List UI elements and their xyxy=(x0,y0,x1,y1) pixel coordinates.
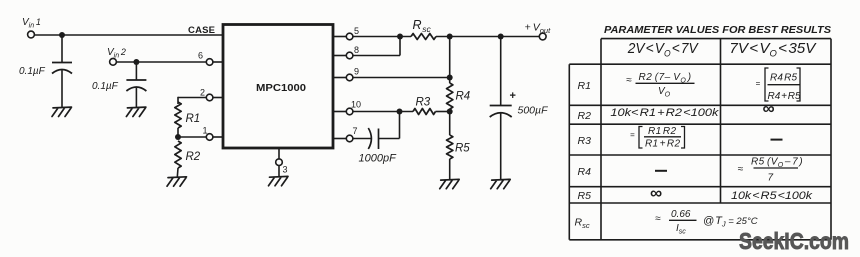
pin 3 lead xyxy=(278,148,280,159)
wire Rsc to Vout xyxy=(436,36,539,38)
wire C1 top lead xyxy=(61,35,63,62)
table header col1 2V&lt;Vo&lt;7V xyxy=(627,41,699,59)
wire R2 to ground xyxy=(176,168,179,177)
value R2 col2 infinity xyxy=(763,99,775,118)
svg-text:R5 (VO – 7 ): R5 (VO – 7 ) xyxy=(751,157,803,170)
svg-text:+: + xyxy=(510,90,516,102)
input terminal Vin1 xyxy=(28,31,35,38)
op-amp U1 MPC1000 package xyxy=(223,25,333,149)
svg-text:∞: ∞ xyxy=(650,184,662,203)
wire IC to pin10 xyxy=(333,111,346,113)
wire pin6 to IC xyxy=(213,61,223,63)
svg-text:3: 3 xyxy=(283,165,288,175)
wire Vin1 to IC CASE xyxy=(34,34,223,36)
svg-text:1: 1 xyxy=(203,126,208,136)
wire pin1 to IC xyxy=(213,136,223,138)
row label R1 xyxy=(578,80,591,92)
label CASE xyxy=(188,25,215,36)
wire pin10 to R3 xyxy=(353,111,413,113)
svg-text:=: = xyxy=(630,131,635,140)
svg-text:=: = xyxy=(756,79,761,88)
pin 3 terminal xyxy=(276,159,283,166)
svg-text:10: 10 xyxy=(351,100,361,110)
ground under C2 xyxy=(126,107,145,116)
label C4 plus xyxy=(510,90,516,102)
node junction pin5/pin8 xyxy=(397,34,403,40)
wire pin7 to C3 xyxy=(353,138,371,140)
pin 9 label xyxy=(354,67,359,77)
svg-text:0.1µF: 0.1µF xyxy=(92,81,119,92)
svg-text:≈: ≈ xyxy=(655,214,661,225)
label C1 0.1uF xyxy=(19,66,46,77)
pin 8 terminal xyxy=(346,52,353,59)
svg-text:R3: R3 xyxy=(578,135,592,147)
capacitor C2 0.1uF xyxy=(126,80,146,91)
wire riser Rsc-R4node xyxy=(449,37,451,78)
capacitor C4 500uF xyxy=(490,106,512,118)
table title PARAMETER VALUES FOR BEST RESULTS xyxy=(604,24,831,36)
label Vin1 xyxy=(22,17,41,30)
table header col2 7V&lt;Vo&lt;35V xyxy=(729,41,816,59)
capacitor C1 0.1uF xyxy=(52,63,72,74)
resistor Rsc xyxy=(411,34,436,40)
svg-text:PARAMETER VALUES FOR BEST RESU: PARAMETER VALUES FOR BEST RESULTS xyxy=(604,24,831,36)
svg-text:R3: R3 xyxy=(416,97,431,109)
label MPC1000 xyxy=(256,83,306,94)
label 1000pF xyxy=(359,153,398,165)
svg-text:10k< R1 + R2 <100k: 10k< R1 + R2 <100k xyxy=(610,107,719,119)
value R4 col2 formula xyxy=(738,157,804,184)
wire 500uF top lead xyxy=(500,37,502,106)
pin 7 label xyxy=(353,126,358,136)
watermark SeekIC.com xyxy=(739,228,849,254)
wire C2 top lead xyxy=(135,62,137,80)
output terminal +Vout xyxy=(539,33,546,40)
svg-text:8: 8 xyxy=(354,45,359,55)
node junction R1/R2/pin1 xyxy=(175,134,181,140)
wire C1 bottom lead xyxy=(61,70,63,107)
label Vin2 xyxy=(107,47,126,60)
pin 10 terminal xyxy=(346,108,353,115)
value R1 col2 formula xyxy=(756,68,801,102)
svg-text:R2: R2 xyxy=(578,110,592,122)
wire pin5 to Rsc xyxy=(353,36,411,38)
wire Vin2 to pin 6 xyxy=(116,61,206,63)
wire 500uF bottom lead xyxy=(500,113,502,179)
value R3 col2 dash xyxy=(771,139,783,141)
wire C3 to pin10 node xyxy=(379,112,400,139)
wire R1 to node xyxy=(177,128,179,137)
pin 5 label xyxy=(354,26,359,36)
label +Vout xyxy=(525,22,552,36)
label R1 xyxy=(186,113,201,125)
svg-text:2: 2 xyxy=(200,88,205,98)
label C2 0.1uF xyxy=(92,81,119,92)
svg-text:500µF: 500µF xyxy=(518,105,549,117)
wire pin8 to riser xyxy=(353,37,400,56)
wire pin3 to ground xyxy=(278,166,280,177)
row label R2 xyxy=(578,110,592,122)
node junction pin9/R4 xyxy=(447,75,453,81)
node junction Rsc/R4 riser xyxy=(447,34,453,40)
row label R4 xyxy=(578,166,592,178)
svg-text:R1 R2: R1 R2 xyxy=(648,126,676,137)
value R4 col1 dash xyxy=(655,170,667,172)
svg-text:R1 + R2: R1 + R2 xyxy=(645,138,680,149)
svg-text:R1: R1 xyxy=(186,113,201,125)
ground under R5 xyxy=(440,179,460,188)
resistor R5 xyxy=(447,135,453,159)
node junction Vin1/C1 xyxy=(59,32,65,38)
node junction pin10/1000pF xyxy=(397,109,403,115)
wire R4 bottom lead xyxy=(449,109,451,112)
pin 3 label xyxy=(283,165,288,175)
pin 10 label xyxy=(351,100,361,110)
node junction 500uF xyxy=(498,34,504,40)
value R3 col1 formula xyxy=(630,126,685,149)
pin 1 label xyxy=(203,126,208,136)
pin 5 terminal xyxy=(346,33,353,40)
label R5 xyxy=(455,143,470,155)
wire R5 to ground xyxy=(449,159,451,180)
label R3 xyxy=(416,97,431,109)
label Rsc xyxy=(413,18,432,34)
svg-text:SeekIC.com: SeekIC.com xyxy=(739,228,849,254)
svg-text:R4: R4 xyxy=(456,91,471,103)
svg-text:R2: R2 xyxy=(186,151,201,163)
wire node to pin 1 xyxy=(178,136,206,138)
pin 2 label xyxy=(200,88,205,98)
pin 9 terminal xyxy=(346,74,353,81)
ground under 500uF xyxy=(491,179,511,188)
svg-text:7: 7 xyxy=(768,173,774,184)
label R4 xyxy=(456,91,471,103)
svg-text:R1: R1 xyxy=(578,80,591,92)
svg-text:R5: R5 xyxy=(578,190,592,202)
pin 2 terminal xyxy=(206,94,213,101)
svg-text:0.66: 0.66 xyxy=(671,209,691,220)
row label R3 xyxy=(578,135,592,147)
wire IC to pin7 xyxy=(333,138,346,140)
row label Rsc xyxy=(575,217,590,231)
svg-text:R5: R5 xyxy=(455,143,470,155)
svg-text:CASE: CASE xyxy=(188,25,215,36)
svg-text:≈: ≈ xyxy=(626,75,632,86)
resistor R4 xyxy=(447,83,453,109)
node junction R3/R4/R5 xyxy=(447,109,453,115)
node junction Vin2/C2 xyxy=(133,59,139,65)
svg-text:10k < R5 <100k: 10k < R5 <100k xyxy=(731,190,813,202)
wire R4 top lead xyxy=(449,78,451,84)
wire C2 bottom lead xyxy=(135,88,137,108)
svg-text:0.1µF: 0.1µF xyxy=(19,66,46,77)
svg-text:MPC1000: MPC1000 xyxy=(256,83,306,94)
value R5 col1 infinity xyxy=(650,184,662,203)
pin 7 terminal xyxy=(346,135,353,142)
wire IC to pin5 xyxy=(333,36,346,38)
wire pin2 left to R1 xyxy=(178,97,206,104)
svg-text:5: 5 xyxy=(354,26,359,36)
svg-text:R4: R4 xyxy=(578,166,592,178)
resistor R2 xyxy=(175,141,181,168)
pin 8 label xyxy=(354,45,359,55)
svg-text:2V < VO < 7V: 2V < VO < 7V xyxy=(627,41,699,59)
ground under C1 xyxy=(52,107,72,116)
svg-text:≈: ≈ xyxy=(738,164,744,175)
input terminal Vin2 xyxy=(110,58,117,65)
ground under R2 xyxy=(167,177,187,186)
wire R5 top lead xyxy=(449,112,451,136)
resistor R1 xyxy=(175,102,181,128)
value Rsc formula xyxy=(655,209,758,236)
label R2 xyxy=(186,151,201,163)
svg-text:@ TJ = 25°C: @ TJ = 25°C xyxy=(703,215,758,229)
svg-text:R4 R5: R4 R5 xyxy=(770,73,797,84)
ground under pin 3 xyxy=(269,176,289,185)
wire R3 to node xyxy=(436,111,450,113)
svg-text:9: 9 xyxy=(354,67,359,77)
value R5 col2 10k&lt;R5&lt;100k xyxy=(731,190,813,202)
svg-text:∞: ∞ xyxy=(763,99,775,118)
pin 6 terminal xyxy=(206,59,213,66)
wire pin9 to R4 node xyxy=(353,77,450,79)
wire IC to pin9 xyxy=(333,77,346,79)
svg-text:6: 6 xyxy=(198,51,203,61)
pin 1 terminal xyxy=(206,134,213,141)
table grid lines xyxy=(569,39,831,240)
capacitor C3 1000pF xyxy=(368,128,378,149)
value R1 col1 formula xyxy=(626,72,695,99)
wire IC to pin8 xyxy=(333,55,346,57)
svg-text:7: 7 xyxy=(353,126,358,136)
pin 6 label xyxy=(198,51,203,61)
svg-text:1000pF: 1000pF xyxy=(359,153,398,165)
row label R5 xyxy=(578,190,592,202)
wire pin2 to IC xyxy=(213,97,223,99)
label 500uF xyxy=(518,105,549,117)
resistor R3 xyxy=(413,109,436,115)
value R2 col1 10k&lt;R1+R2&lt;100k xyxy=(610,107,719,119)
